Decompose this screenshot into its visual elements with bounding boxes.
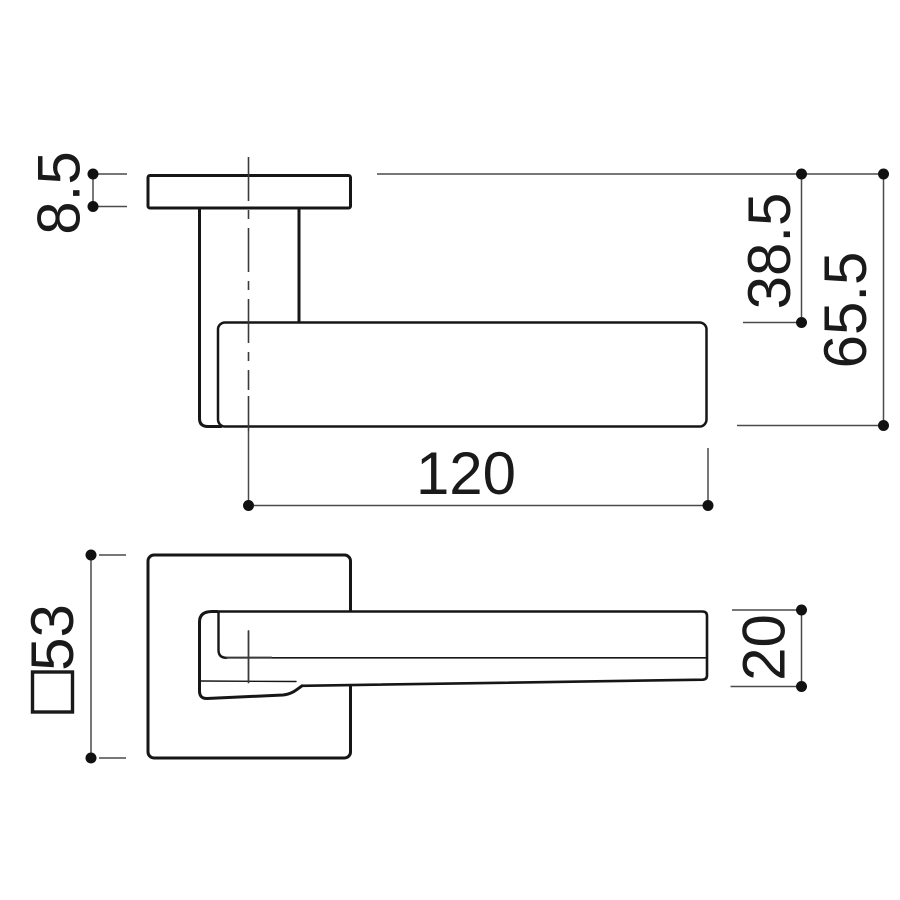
svg-text:53: 53 xyxy=(19,604,86,671)
svg-text:120: 120 xyxy=(416,440,516,507)
svg-text:8.5: 8.5 xyxy=(26,151,93,234)
svg-text:65.5: 65.5 xyxy=(812,252,879,369)
svg-text:38.5: 38.5 xyxy=(736,193,803,310)
svg-text:20: 20 xyxy=(731,614,798,681)
